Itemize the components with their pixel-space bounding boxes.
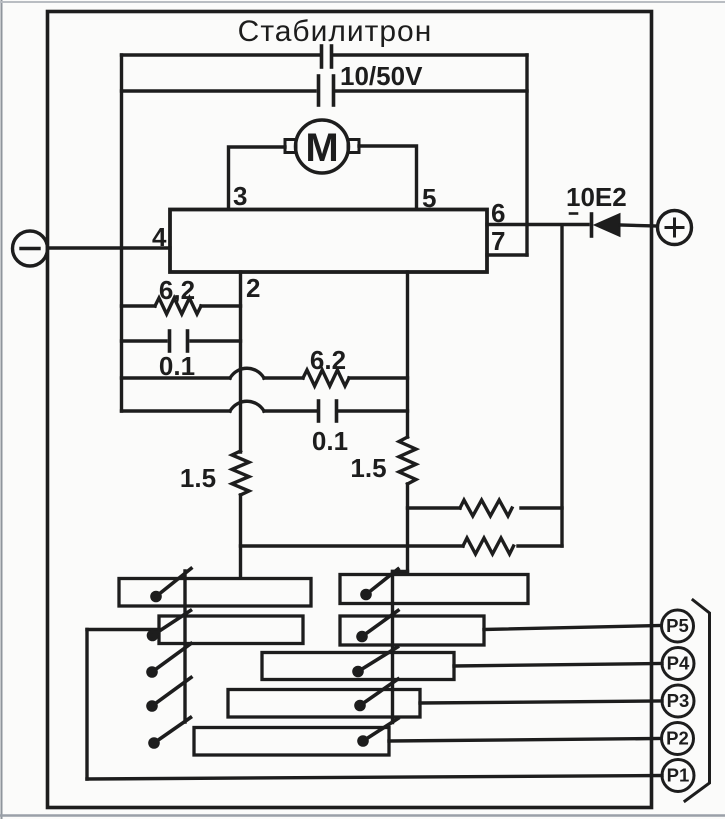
switch S2 [147, 630, 159, 642]
wire second capacitor left [122, 89, 316, 92]
wire pin 2 vertical [239, 272, 242, 452]
svg-text:1.5: 1.5 [350, 453, 386, 483]
wire P5 [484, 626, 661, 630]
wire resistor pair lower [241, 544, 464, 547]
switch box C [340, 575, 528, 604]
switch S6 [360, 589, 372, 601]
switch box G [194, 728, 389, 756]
wire right vertical from capacitors [525, 55, 528, 255]
svg-text:7: 7 [491, 226, 505, 256]
resistor R4 1.5 right [399, 437, 416, 484]
resistor R2 6.2 [303, 370, 349, 386]
terminal plus [658, 211, 692, 245]
terminal minus [13, 231, 48, 266]
svg-text:4: 4 [152, 222, 167, 252]
wire pin 7 loop [487, 253, 527, 256]
capacitor C1 [320, 46, 324, 67]
wire pin 6 to diode [487, 223, 588, 226]
terminal P1 [662, 760, 694, 792]
wire resistor pair upper [408, 506, 461, 509]
svg-text:M: M [305, 126, 338, 170]
resistor R5 [460, 500, 512, 516]
svg-text:P1: P1 [667, 765, 690, 786]
resistor R6 [463, 538, 514, 554]
switch S8 [352, 666, 364, 678]
switch box F [228, 690, 420, 718]
resistor R3 1.5 left [232, 451, 249, 495]
terminal P5 [662, 610, 694, 642]
motor M1 [296, 120, 349, 173]
capacitor C4 0.1 [317, 401, 321, 421]
resistor R1 6,2 [122, 304, 156, 307]
wire top capacitor left [122, 53, 320, 56]
wire branch with hop to capacitor C4 [122, 409, 231, 412]
wire diode to plus [620, 225, 657, 226]
capacitor C3 0.1 [122, 339, 167, 342]
wire jog to right switch bus [393, 570, 408, 573]
svg-text:10/50V: 10/50V [340, 61, 423, 91]
svg-text:P4: P4 [667, 653, 690, 674]
wire P2 [389, 739, 661, 742]
svg-text:2: 2 [246, 273, 260, 303]
control unit U1 [170, 210, 487, 273]
switch S10 [357, 735, 369, 747]
switch box D [340, 616, 484, 645]
switch S3 [146, 666, 158, 678]
wire right switch bus [391, 572, 394, 723]
switch S5 [148, 737, 160, 749]
scan edge artifacts [1, 0, 3, 819]
wire stub to box B [87, 628, 159, 631]
wire right vertical from diode node [560, 225, 563, 546]
switch S1 [150, 591, 162, 603]
wire minus to pin 4 [48, 246, 171, 249]
wire top capacitor right [334, 53, 527, 56]
wire left bottom vertical [85, 630, 88, 780]
wire left vertical bus [120, 55, 123, 411]
terminal P4 [662, 648, 694, 680]
svg-text:0.1: 0.1 [312, 426, 348, 456]
terminal P3 [662, 685, 694, 717]
capacitor C2 10/50V [317, 76, 321, 105]
svg-text:P5: P5 [666, 615, 689, 636]
svg-text:6,2: 6,2 [159, 275, 195, 305]
svg-text:P2: P2 [666, 728, 689, 749]
terminal P2 [662, 723, 694, 755]
svg-text:6.2: 6.2 [310, 345, 346, 375]
svg-text:P3: P3 [667, 690, 690, 711]
wire left switch bus [183, 571, 186, 722]
wire second capacitor right [336, 89, 527, 92]
wire motor left to pin 3 [229, 147, 286, 209]
switch box A [119, 579, 311, 607]
svg-text:10E2: 10E2 [566, 182, 627, 212]
wire P3 [420, 701, 662, 703]
switch box E [262, 653, 454, 680]
switch S4 [146, 700, 158, 712]
wire motor right to pin 5 [359, 146, 417, 209]
wire box bottom pin vertical [406, 272, 409, 437]
switch S9 [354, 700, 366, 712]
wire P1 [87, 776, 662, 780]
switch S7 [356, 631, 368, 643]
bracket [685, 600, 710, 801]
svg-text:1.5: 1.5 [180, 463, 216, 493]
svg-text:Стабилитрон: Стабилитрон [238, 15, 433, 48]
wire P4 [454, 664, 662, 667]
diode VD1 10E2 [590, 214, 594, 236]
switch box B [159, 616, 303, 644]
svg-text:3: 3 [233, 181, 247, 211]
wire branch with hop to resistor R2 [122, 376, 231, 379]
